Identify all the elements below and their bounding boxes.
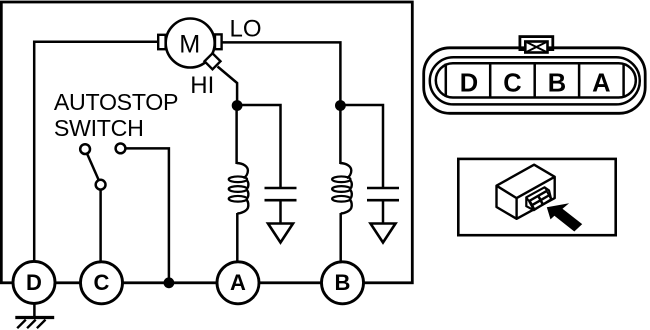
motor HI terminal tab [205,53,221,69]
svg-text:A: A [592,69,610,97]
wire right junction to capacitor C2 [340,105,383,188]
module connector block pin grid [530,196,540,204]
wire left junction to capacitor C1 [237,105,280,188]
ground hatch 2 [27,320,36,329]
svg-text:B: B [548,69,566,97]
outer circuit box [1,2,412,283]
capacitor C2 ground arrow [371,224,396,243]
capacitor C2 ground stem [382,200,385,223]
wire coil L2 to terminal B [339,213,342,262]
module top face edges [497,177,555,219]
capacitor C1 plates [265,188,297,200]
motor M1 circle [166,19,215,68]
wire motor left to D [34,42,158,262]
capacitor C2 plates [367,188,399,200]
inductor L1 [229,163,249,213]
connector cell divider 2 [489,64,492,98]
connector terminal row [436,63,636,97]
capacitor C1 ground stem [279,200,282,223]
svg-text:B: B [335,270,351,295]
connector tab [520,37,553,50]
module body silhouette [497,165,555,219]
connector lock cross [525,42,547,53]
terminal B circle [322,262,364,304]
wire HI to left coil junction [218,67,238,106]
svg-text:SWITCH: SWITCH [54,115,144,141]
terminal C circle [81,262,123,304]
connector middle shell [430,57,640,104]
bus junction node [164,277,175,288]
module connector block top edge [526,187,547,201]
switch S1 common contact [96,180,106,190]
connector cell divider 3 [533,64,536,98]
junction node left [232,100,243,111]
arrow pointer [547,203,582,231]
motor right brush tab [215,34,222,49]
connector cell divider 5 [622,64,625,98]
svg-text:AUTOSTOP: AUTOSTOP [54,89,178,115]
svg-text:M: M [179,30,200,58]
connector cell divider 4 [578,64,581,98]
ground hatch 1 [17,320,26,329]
inductor L2 [332,163,352,213]
ground stem below D [33,303,36,316]
connector outer shell [424,48,646,114]
switch S1 right contact [116,144,126,154]
wire LO: motor right to right coil junction [222,42,341,105]
wire right junction down to coil L2 [339,106,342,165]
svg-text:A: A [230,270,246,295]
ground bar [15,316,54,319]
svg-text:LO: LO [230,16,262,43]
ground hatch 3 [37,320,46,329]
svg-text:HI: HI [190,72,214,99]
connector cell divider 1 [445,64,448,98]
capacitor C1 ground arrow [268,224,293,243]
wire switch right contact to bus junction [125,148,168,282]
svg-text:D: D [26,270,42,295]
switch S1 left contact [80,144,90,154]
svg-text:D: D [460,69,478,97]
svg-text:C: C [94,270,110,295]
connector lock box [525,42,547,53]
wire switch common to terminal C [99,190,102,262]
wire coil L1 to terminal A [236,213,239,262]
terminal D circle [13,261,55,303]
svg-text:C: C [503,69,521,97]
motor left brush tab [158,35,165,49]
junction node right [335,100,346,111]
wire left junction down to coil L1 [235,106,238,165]
module connector block silhouette [526,187,551,210]
terminal A circle [217,262,259,304]
module callout box [458,159,615,235]
switch S1 blade [87,154,99,181]
